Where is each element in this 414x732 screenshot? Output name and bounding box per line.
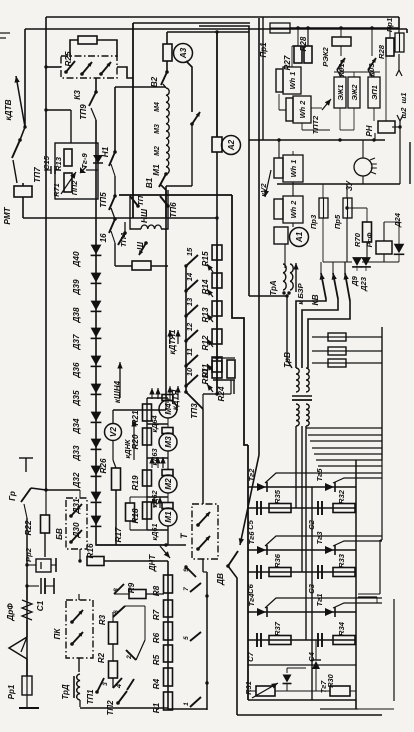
resistor R28 <box>304 46 312 63</box>
diode Д32 <box>91 466 102 476</box>
svg-text:7: 7 <box>183 587 190 591</box>
svg-text:ш1: ш1 <box>399 93 408 104</box>
resistor R24 <box>227 360 235 378</box>
fuse Пр1b <box>395 33 404 52</box>
resistor R6 <box>164 622 173 640</box>
wire А1 down to ТрА <box>284 244 286 268</box>
bundle wire 4 <box>312 447 382 449</box>
svg-text:R30: R30 <box>326 673 335 687</box>
bundle wire 5 <box>314 453 382 455</box>
resistor R70 <box>363 222 372 242</box>
ground bottom <box>26 695 28 708</box>
svg-text:R36: R36 <box>273 553 282 568</box>
svg-text:РН: РН <box>365 125 374 136</box>
capacitor С7 <box>256 633 258 647</box>
node junction on left bus <box>23 125 26 128</box>
svg-text:РсФ: РсФ <box>365 232 374 247</box>
svg-text:R34: R34 <box>337 621 346 636</box>
row wire <box>248 549 356 551</box>
resistor R10 <box>212 361 222 378</box>
diode Д40 <box>91 245 102 255</box>
row wire <box>248 486 356 488</box>
brake switch Т box <box>192 504 218 559</box>
resistor R13 <box>64 149 72 166</box>
svg-text:ЗУ: ЗУ <box>345 180 354 191</box>
svg-text:С3: С3 <box>307 583 316 593</box>
diode Д38 <box>91 301 102 311</box>
svg-text:R19: R19 <box>131 475 140 490</box>
svg-text:14: 14 <box>185 272 194 281</box>
resistor R8 <box>164 575 173 593</box>
svg-text:ТрД: ТрД <box>61 684 70 700</box>
motor М3 <box>162 428 173 434</box>
wire motor bus mid <box>165 186 167 398</box>
svg-text:Пр1: Пр1 <box>385 18 394 32</box>
resistor R1 <box>164 692 173 710</box>
resistor R7 <box>164 600 173 617</box>
wire Wh1b leads <box>292 151 294 155</box>
shunt of А3 <box>163 44 172 61</box>
svg-text:Рр1: Рр1 <box>7 684 16 699</box>
wire taps link <box>125 605 145 607</box>
svg-text:R5: R5 <box>152 654 161 665</box>
resistor R27 <box>294 46 302 63</box>
diode Д36 <box>91 356 102 366</box>
svg-text:М4: М4 <box>154 102 161 112</box>
diode Д39 <box>91 273 102 283</box>
wire ladder bus <box>167 561 169 710</box>
svg-text:ТП9: ТП9 <box>79 104 88 120</box>
relay РЭК2 <box>332 37 351 46</box>
svg-text:ТрА: ТрА <box>269 280 278 296</box>
wire right bus down from top1 <box>398 17 400 29</box>
svg-text:16: 16 <box>99 233 108 243</box>
wire py195 bus <box>119 194 232 196</box>
svg-text:Пр3: Пр3 <box>309 214 318 229</box>
wire py184 bus <box>277 183 400 185</box>
resistor R5 <box>164 645 173 662</box>
relay РсФ <box>376 241 392 254</box>
wire block right rail <box>355 460 357 709</box>
wire motor link 5 <box>147 529 168 531</box>
fuse row wire <box>312 362 382 364</box>
wire motor link 3 <box>147 457 168 459</box>
wire КВ to rails <box>296 299 326 368</box>
svg-text:М2: М2 <box>164 478 173 490</box>
wire diode bus <box>95 143 97 527</box>
row wire <box>248 639 356 641</box>
ammeter А1 <box>290 228 309 247</box>
wire py296 link <box>249 295 287 297</box>
svg-text:Д9: Д9 <box>350 275 359 286</box>
wire inner top bus <box>133 22 250 24</box>
svg-text:К3: К3 <box>73 90 82 100</box>
diode Д30 <box>91 516 102 526</box>
svg-text:ТП6: ТП6 <box>169 202 178 218</box>
tap 10 <box>184 384 187 387</box>
svg-text:Гр: Гр <box>8 491 17 501</box>
svg-text:М1: М1 <box>164 511 173 523</box>
fuse row wire <box>312 336 382 338</box>
svg-text:R37: R37 <box>273 621 282 636</box>
svg-text:R33: R33 <box>337 553 346 568</box>
svg-text:R9: R9 <box>127 582 136 593</box>
svg-text:НШ: НШ <box>140 208 149 223</box>
thyristor Тг5 <box>325 483 334 491</box>
wire inner box left edge <box>132 23 134 218</box>
svg-text:ЭЖ1: ЭЖ1 <box>336 84 345 100</box>
svg-text:ДВ: ДВ <box>216 573 225 586</box>
БВ contact 1 <box>71 504 82 516</box>
svg-text:ЭП1: ЭП1 <box>370 85 379 100</box>
svg-text:ТПТ2: ТПТ2 <box>311 115 320 134</box>
wire Т bottom <box>202 559 204 572</box>
svg-text:ДрФ: ДрФ <box>6 603 15 622</box>
svg-text:R71: R71 <box>52 183 61 196</box>
wire py140 bus <box>249 139 385 141</box>
wire R chain bus <box>216 245 218 394</box>
svg-text:ТП7: ТП7 <box>33 167 42 183</box>
wire block left rail <box>247 445 249 700</box>
wire fuse feeds <box>322 184 324 198</box>
fuse Пр3 <box>319 198 328 218</box>
wire БВ down <box>79 549 81 561</box>
К3 contact 1 <box>66 61 75 72</box>
wire left bus to Гр <box>44 488 47 491</box>
bundle wire 2 <box>308 434 382 436</box>
wire right bus down from top2 <box>406 29 408 33</box>
wire bypass bottom <box>166 185 192 187</box>
arrow Д8 line <box>240 455 259 545</box>
svg-text:М3: М3 <box>154 124 161 134</box>
fuse Пр1 <box>270 23 290 33</box>
svg-text:РЭК2: РЭК2 <box>321 47 330 67</box>
svg-text:М3: М3 <box>164 436 173 448</box>
svg-text:R22: R22 <box>24 520 33 535</box>
svg-text:Д36: Д36 <box>72 362 81 378</box>
svg-text:3: 3 <box>102 682 109 686</box>
wire Wh links <box>291 46 293 67</box>
resistor R15 <box>212 245 222 260</box>
capacitor С3 <box>317 565 319 579</box>
svg-text:Wh 2: Wh 2 <box>289 200 298 219</box>
resistor R34 <box>333 636 355 645</box>
diode Д33 <box>91 439 102 449</box>
wire R25 left lead <box>70 40 78 57</box>
thyristor Тг2 <box>257 483 266 491</box>
ammeter А2 <box>222 136 241 155</box>
svg-text:ТП3: ТП3 <box>190 403 199 419</box>
breaker БВ box <box>66 498 87 549</box>
wire px232 bus <box>232 195 248 445</box>
svg-text:К01: К01 <box>337 63 346 76</box>
resistor R13 <box>212 301 222 316</box>
diode Тг7 gate <box>283 675 292 683</box>
wire ПК down <box>78 658 80 672</box>
capacitor С5 <box>256 501 258 515</box>
resistor R32 <box>333 504 355 513</box>
wire counters bottom <box>339 108 341 130</box>
svg-text:Д33: Д33 <box>72 445 81 461</box>
svg-text:R32: R32 <box>337 489 346 504</box>
svg-text:12: 12 <box>185 322 194 331</box>
winding М4 М3 М2 М1 <box>166 88 169 174</box>
wire motor link 4 <box>147 496 168 498</box>
wire top bus 1 <box>46 16 399 18</box>
Т contact 2 <box>198 536 210 549</box>
motor М4 <box>162 395 173 401</box>
svg-text:Тг3: Тг3 <box>315 531 324 545</box>
thyristor Тг6 <box>257 546 266 554</box>
svg-text:А3: А3 <box>179 47 188 59</box>
wire К3 to ТП9 <box>95 78 97 92</box>
resistor R36 <box>269 568 291 577</box>
tap 12 <box>184 339 187 342</box>
svg-text:С1: С1 <box>36 600 45 611</box>
wire ТрА to ТрВ <box>286 295 288 360</box>
thyristor Тг1 <box>325 608 334 616</box>
meter Wh1b <box>283 155 303 182</box>
svg-text:Тг1: Тг1 <box>315 594 324 607</box>
ammeter А1 shunt <box>274 227 288 244</box>
svg-text:ПК: ПК <box>53 628 62 640</box>
wire edge mark <box>0 32 10 34</box>
resistor R26 <box>112 468 121 490</box>
fuse Пр5 <box>343 198 352 218</box>
resistor R12 <box>212 329 222 344</box>
arrow кДТВ <box>16 76 25 127</box>
svg-text:Wh 1: Wh 1 <box>289 160 298 178</box>
resistor R20 <box>143 428 152 445</box>
box СТБ <box>55 143 98 199</box>
svg-text:М2: М2 <box>154 146 161 156</box>
arrows к Д62 <box>151 457 153 468</box>
voltmeter V2 <box>105 424 122 441</box>
wire R25 right lead <box>97 40 117 57</box>
svg-text:1: 1 <box>183 702 190 706</box>
svg-text:R10: R10 <box>201 369 210 384</box>
svg-text:Рр2: Рр2 <box>24 547 33 562</box>
wire А2 bus top <box>216 32 218 137</box>
svg-text:С15: С15 <box>42 155 51 170</box>
svg-text:М1: М1 <box>152 164 161 176</box>
svg-text:ТрВ: ТрВ <box>283 352 292 368</box>
svg-text:5: 5 <box>183 636 190 640</box>
capacitor С2 <box>317 501 319 515</box>
svg-text:R70: R70 <box>353 232 362 247</box>
resistor shunt box <box>132 261 151 270</box>
tap 11 <box>184 364 187 367</box>
connector ш1 <box>398 54 400 70</box>
svg-text:ТП2: ТП2 <box>106 700 115 716</box>
wire М1 bottom bus <box>96 544 186 546</box>
diode Д37 <box>91 328 102 338</box>
resistor R22 <box>41 515 50 533</box>
switch В2 <box>161 72 167 85</box>
tap 13 <box>184 314 187 317</box>
counter ЭП1 <box>368 77 380 108</box>
wire diode bus bottom <box>96 527 166 545</box>
wire counters top <box>334 71 380 73</box>
svg-text:R21: R21 <box>131 410 140 425</box>
meter Wh2 <box>293 96 311 123</box>
svg-text:R35: R35 <box>273 489 282 504</box>
КВ blade 1 <box>321 273 326 299</box>
arrows к Д61 <box>153 497 155 508</box>
row wire <box>248 507 356 509</box>
wire R16 to ladder <box>104 560 168 562</box>
svg-text:R2: R2 <box>97 652 106 663</box>
svg-text:Тг2: Тг2 <box>247 468 256 482</box>
svg-text:С6: С6 <box>246 583 255 593</box>
wire А2 bus bottom <box>216 152 218 245</box>
bundle wire 1 <box>306 427 382 429</box>
svg-text:Д24: Д24 <box>393 212 402 228</box>
capacitor С6 <box>256 565 258 579</box>
wire ТрВ secondary down <box>295 426 297 508</box>
wire bottom bus left <box>80 707 168 709</box>
svg-text:Д23: Д23 <box>359 276 368 292</box>
wire А3 top <box>166 32 168 44</box>
svg-text:Д40: Д40 <box>72 251 81 267</box>
wire out of К3 <box>117 67 133 78</box>
resistor R16 <box>87 557 104 566</box>
resistor R28b <box>386 38 394 56</box>
pantograph <box>26 620 28 637</box>
svg-text:Д39: Д39 <box>72 279 81 295</box>
wire bottom ladder <box>168 708 207 710</box>
КВ blade 3 <box>345 273 350 301</box>
diode Д35 <box>91 384 102 394</box>
svg-text:R3: R3 <box>98 614 107 625</box>
wire box feed <box>70 110 72 143</box>
wire bundle right vertical <box>381 327 383 460</box>
wire В1 to bottom <box>161 185 166 218</box>
resistor R2 <box>109 661 118 678</box>
switch ТП7 <box>12 140 20 158</box>
svg-text:Т: Т <box>179 533 189 539</box>
svg-text:R16: R16 <box>86 543 95 558</box>
wire row Тг7 <box>248 664 356 666</box>
wire right vertical bus <box>258 18 260 455</box>
motor М1 <box>162 503 173 509</box>
ПК contact 2 <box>72 632 83 644</box>
meter Wh2b <box>283 196 303 223</box>
svg-text:ЭЖ2: ЭЖ2 <box>350 84 359 101</box>
switch ТП9 <box>89 92 96 106</box>
wire block mid rail <box>311 487 313 700</box>
resistor R25 <box>78 36 97 44</box>
svg-text:R7: R7 <box>152 609 161 620</box>
svg-text:R26: R26 <box>99 458 108 473</box>
svg-text:ТП1: ТП1 <box>86 689 95 705</box>
svg-text:Wh 1: Wh 1 <box>288 72 297 90</box>
svg-text:Тг4: Тг4 <box>247 593 256 607</box>
wire right lower vertical <box>381 460 383 540</box>
wire Гр down <box>24 504 27 518</box>
svg-text:V2: V2 <box>109 427 118 437</box>
resistor R21 <box>143 404 152 421</box>
svg-text:кДТВ: кДТВ <box>4 99 13 120</box>
svg-text:кДНК: кДНК <box>123 439 132 458</box>
svg-text:А2: А2 <box>227 139 236 151</box>
wire motor verticals <box>167 398 169 403</box>
svg-text:А1: А1 <box>295 231 304 243</box>
wire R24 to Т <box>233 380 235 394</box>
wire outer bottom <box>237 714 382 716</box>
wire Н1 top link <box>115 86 166 88</box>
svg-text:Wh 2: Wh 2 <box>298 100 307 119</box>
resistor R17 <box>126 503 135 521</box>
svg-text:15: 15 <box>185 247 194 256</box>
wire motor link 1 <box>147 397 168 399</box>
svg-text:В2: В2 <box>150 76 159 87</box>
К3 contact 2 <box>82 62 92 74</box>
К3 contact 3 <box>101 62 111 74</box>
counter ЭЖ1 <box>334 77 346 108</box>
tap 14 <box>184 289 187 292</box>
Т contact 1 <box>198 512 210 525</box>
wire БВ up <box>79 490 81 498</box>
svg-text:ш2: ш2 <box>399 107 408 119</box>
resistor R14 <box>212 273 222 288</box>
wire tap bus <box>185 266 187 392</box>
svg-text:Д34: Д34 <box>72 418 81 434</box>
svg-text:Д37: Д37 <box>72 334 81 350</box>
wire block bottom <box>248 699 356 701</box>
meter Wh1 <box>283 67 301 94</box>
svg-text:Д35: Д35 <box>72 390 81 406</box>
bundle wire 3 <box>310 440 382 442</box>
svg-text:R31: R31 <box>244 681 253 695</box>
svg-text:ДНТ: ДНТ <box>148 554 157 573</box>
wire right tap bus <box>206 572 208 710</box>
svg-text:R15: R15 <box>201 251 210 266</box>
switch В1 <box>159 174 166 187</box>
svg-text:13: 13 <box>185 297 194 306</box>
bundle wire 6 <box>316 459 382 461</box>
БВ contact 2 <box>71 530 82 542</box>
wire КВ feeds <box>320 262 322 273</box>
resistor R30 <box>330 686 350 696</box>
wire motor R bus <box>146 398 148 530</box>
svg-text:R6: R6 <box>152 632 161 643</box>
svg-text:КВ: КВ <box>311 294 320 305</box>
wire diode row <box>323 261 352 263</box>
svg-text:В1: В1 <box>145 177 154 188</box>
wire А3 right branch <box>186 61 192 112</box>
svg-text:Тг-9: Тг-9 <box>80 153 89 169</box>
svg-text:ТП5: ТП5 <box>99 192 108 208</box>
svg-text:10: 10 <box>185 367 194 376</box>
resistor R11 <box>212 357 222 372</box>
resistor R31 variable <box>256 686 275 696</box>
wire into К3 <box>46 66 61 68</box>
shunt of А2 <box>212 137 222 152</box>
resistor R37 <box>269 636 291 645</box>
svg-text:R20: R20 <box>131 434 140 449</box>
resistor R35 <box>269 504 291 513</box>
wire big box right edge <box>199 26 249 296</box>
diode Д34 <box>91 412 102 422</box>
svg-text:Тг6: Тг6 <box>247 531 256 545</box>
fuse row wire <box>312 350 382 352</box>
wire row R31 R30 <box>248 690 256 692</box>
svg-text:ПП2: ПП2 <box>70 181 79 196</box>
counter ЭЖ2 <box>348 77 360 108</box>
capacitor С4 <box>317 633 319 647</box>
svg-text:R28: R28 <box>299 36 308 51</box>
